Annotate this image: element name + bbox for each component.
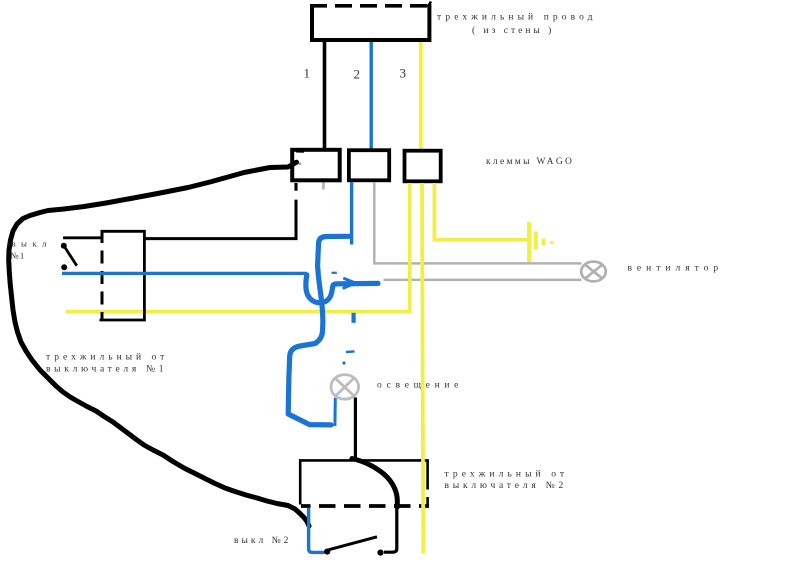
wire black S2 lower vertical to right contact (384, 506, 397, 552)
WAGO terminal K2 (349, 150, 389, 180)
wire yellow K3 first core down to horizontal run (408, 183, 412, 312)
switch S1 contact dot upper (61, 243, 67, 249)
svg-text:клеммы WAGO: клеммы WAGO (486, 157, 574, 167)
svg-text:освещение: освещение (377, 381, 463, 391)
svg-text:№1: №1 (11, 251, 26, 261)
wire black stub below K1 (294, 183, 297, 191)
wire yellow long vertical K3 middle core (422, 183, 423, 554)
wire gray K2 to fan (upper) (374, 182, 581, 263)
wire 2 blue J1 to K2 (370, 42, 373, 149)
switch S1 contact dot lower (61, 264, 67, 270)
junction box J1 (three-core cable from wall) (310, 2, 431, 41)
thick blue freehand wire B (hook and arrow to fan line) (306, 275, 378, 303)
svg-text:выкл №2: выкл №2 (234, 536, 291, 546)
svg-text:трехжильный от: трехжильный от (46, 352, 168, 363)
switch box S2 (300, 460, 429, 506)
thick blue freehand wire A (from under run to lamp) (288, 236, 350, 425)
switch S2 blade (329, 537, 378, 550)
WAGO terminal K1 (292, 150, 340, 181)
wire blue below K2 (350, 182, 353, 245)
fan symbol M1 (581, 262, 606, 282)
switch S2 contact dot left (324, 549, 330, 555)
small blue dash near hook (332, 272, 337, 274)
black tick inside K1 top edge (296, 150, 304, 153)
svg-text:вентилятор: вентилятор (628, 264, 724, 274)
blue arrowhead on wire B (344, 279, 355, 288)
svg-text:выключателя №1: выключателя №1 (46, 365, 167, 375)
switch S1 wire to box (63, 236, 101, 239)
svg-text:выкл: выкл (12, 239, 52, 249)
wire 1 black J1 to K1 (323, 42, 327, 149)
small blue stub below yellow run (352, 313, 356, 323)
svg-text:трехжильный от: трехжильный от (445, 469, 569, 480)
WAGO terminal K3 (405, 151, 441, 182)
lamp symbol (освещение) (331, 375, 359, 400)
switch box S1 (100, 230, 145, 321)
tiny gray dot inside K1 (299, 162, 302, 165)
wire black lamp to S2 box (354, 398, 357, 460)
freehand black cable from K1 to switch area (трехжильный от выключателя №1) (9, 162, 309, 526)
wire gray stub below K1 (322, 183, 325, 190)
svg-text:3: 3 (400, 66, 407, 81)
wire gray to fan (lower) (384, 279, 582, 282)
svg-text:1: 1 (304, 66, 311, 81)
switch S2 contact dot right (377, 550, 383, 556)
wire blue S2 below box (309, 508, 325, 553)
svg-text:2: 2 (354, 67, 361, 82)
switch S1 blade (65, 248, 77, 266)
small blue dash above lamp (346, 350, 355, 353)
wire yellow K3 third core to ground symbol (433, 183, 530, 240)
wire yellow horizontal run y=312 (66, 310, 411, 314)
wire blue from S1 through box (62, 272, 307, 275)
wire 3 yellow J1 to K3 (419, 42, 423, 150)
small blue dot above lamp (342, 361, 345, 364)
ground symbol (yellow bars) (529, 222, 552, 262)
wire black K1 down to switch run (145, 200, 297, 239)
freehand black cable inside S2 down to contact (352, 459, 397, 508)
svg-text:( из стены ): ( из стены ) (472, 25, 554, 36)
svg-text:трехжильный провод: трехжильный провод (437, 12, 597, 23)
wire blue rise to lamp (333, 398, 336, 426)
svg-text:выключателя №2: выключателя №2 (445, 481, 568, 491)
